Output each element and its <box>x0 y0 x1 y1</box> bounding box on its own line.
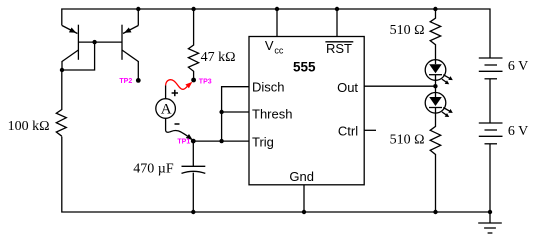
ammeter top lead <box>165 85 167 98</box>
node dot bottom rail 510 <box>433 210 437 214</box>
node dot top rail Vcc <box>275 7 279 11</box>
svg-text:470 µF: 470 µF <box>133 162 174 177</box>
svg-text:TP3: TP3 <box>199 78 212 85</box>
wire collector-base tie <box>62 42 95 70</box>
svg-text:Gnd: Gnd <box>289 169 314 184</box>
svg-text:47 kΩ: 47 kΩ <box>201 50 236 65</box>
wire Out pin <box>364 85 435 87</box>
ammeter U2 circle <box>156 99 176 119</box>
resistor R1 100 kOhm <box>56 70 66 136</box>
node dot Thresh junction <box>219 110 223 114</box>
svg-text:100 kΩ: 100 kΩ <box>8 119 50 134</box>
svg-text:TP1: TP1 <box>177 139 190 146</box>
capacitor C1 470 uF top lead <box>192 141 194 166</box>
LED D1 <box>425 60 453 86</box>
wire RST overline <box>325 41 353 43</box>
node dot bottom rail cap <box>191 210 195 214</box>
node dot collector tie <box>60 68 64 72</box>
svg-text:A: A <box>161 102 172 118</box>
wire black jumper to TP1 <box>166 130 188 136</box>
svg-text:510 Ω: 510 Ω <box>390 23 425 38</box>
capacitor C1 plates <box>182 165 206 167</box>
svg-text:Trig: Trig <box>252 135 274 150</box>
node TP3 <box>191 78 196 83</box>
wire Thresh stub <box>222 111 249 113</box>
battery B2 6V <box>479 123 503 144</box>
ammeter bottom lead <box>165 118 167 130</box>
ammeter - sign <box>175 123 180 125</box>
svg-text:6 V: 6 V <box>508 124 528 139</box>
node dot top rail 47k <box>191 7 195 11</box>
wire Vcc pin <box>276 9 278 37</box>
LED D2 <box>425 86 453 117</box>
transistor Q1 (diode-connected PNP, left) <box>62 25 78 70</box>
node dot Trig junction <box>219 139 223 143</box>
svg-text:Out: Out <box>337 80 358 95</box>
IC U1 555 box <box>249 37 364 185</box>
node dot top rail RST <box>335 7 339 11</box>
node dot bottom rail ground <box>488 210 492 214</box>
wire base rail Q1-Q2 <box>78 41 122 43</box>
wire bottom rail <box>62 137 490 213</box>
wire RST pin <box>336 9 338 37</box>
svg-text:Disch: Disch <box>252 79 285 94</box>
svg-text:Thresh: Thresh <box>252 107 292 122</box>
svg-text:510 Ω: 510 Ω <box>390 133 425 148</box>
node dot bottom rail Gnd <box>302 210 306 214</box>
svg-text:555: 555 <box>293 60 316 75</box>
wire TP1 to Trig <box>193 140 249 142</box>
resistor R4 510 Ohm bottom <box>430 113 441 212</box>
wire between batteries <box>489 79 491 123</box>
node dot Out-LED junction <box>433 84 437 88</box>
svg-text:cc: cc <box>274 46 284 56</box>
node TP1 <box>191 139 196 144</box>
resistor R3 510 Ohm top <box>430 9 441 60</box>
svg-text:TP2: TP2 <box>119 78 132 85</box>
resistor R2 47 kOhm <box>188 9 198 80</box>
ammeter + sign <box>172 90 180 124</box>
node dot top rail 510 <box>433 7 437 11</box>
capacitor C1 bottom lead <box>192 173 194 212</box>
node dot top rail Q2 emitter <box>136 7 140 11</box>
ground symbol <box>478 212 502 233</box>
wire red jumper to TP3 <box>166 80 188 90</box>
wire Gnd pin <box>303 185 305 212</box>
wire battery to bottom rail <box>489 144 491 212</box>
svg-text:6 V: 6 V <box>508 59 528 74</box>
node TP2 <box>136 78 141 83</box>
svg-text:Ctrl: Ctrl <box>338 124 358 139</box>
transistor Q2 (PNP, right) <box>122 9 138 80</box>
svg-text:RST: RST <box>326 41 352 56</box>
wire Ctrl stub <box>364 129 376 131</box>
battery B1 6V <box>479 58 503 79</box>
node dot base tie <box>92 40 96 44</box>
wire top rail <box>62 9 490 58</box>
wire Disch-Thresh-Trig bus <box>222 87 249 141</box>
svg-text:V: V <box>265 38 274 53</box>
